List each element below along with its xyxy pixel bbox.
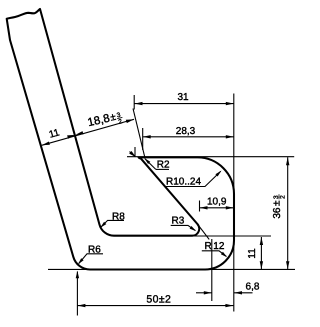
- svg-text:R10..24: R10..24: [166, 176, 201, 187]
- wire extension line right edge upper: [233, 94, 235, 196]
- leader R2: [156, 168, 169, 170]
- svg-text:11: 11: [48, 127, 61, 141]
- svg-text:31: 31: [177, 92, 189, 103]
- arrow 10,9 right: [226, 206, 234, 209]
- svg-text:10,9: 10,9: [207, 197, 227, 208]
- arrow 10,9 left: [200, 206, 208, 209]
- svg-text:R: R: [205, 241, 212, 252]
- arrow 18,8 right: [126, 119, 134, 123]
- wire extension line top edge: [127, 156, 294, 158]
- arrow 6,8 right: [234, 291, 242, 294]
- leader R12: [202, 251, 226, 256]
- dimension line 28,3: [143, 136, 234, 138]
- svg-text:36: 36: [272, 207, 283, 219]
- svg-text:6,8: 6,8: [246, 281, 260, 292]
- dimension line 50: [77, 305, 233, 307]
- leader R10..24: [165, 171, 220, 186]
- arrow 50 left: [77, 304, 85, 307]
- arrow leader R6: [78, 258, 84, 264]
- svg-text:±: ±: [272, 200, 283, 206]
- arrow at tip: [129, 151, 136, 157]
- svg-text:11: 11: [247, 248, 258, 259]
- svg-text:R3: R3: [172, 215, 185, 226]
- arrow 31 left: [135, 102, 143, 105]
- label 11 right: [247, 248, 258, 259]
- leader R6: [79, 254, 103, 264]
- arrow 36 top: [286, 157, 289, 165]
- wire diagonal extension below R3: [197, 223, 209, 239]
- arrow 31 right: [226, 102, 234, 105]
- wire extension line 50 left: [76, 272, 78, 316]
- svg-text:R6: R6: [88, 245, 101, 256]
- wire extension line 31 tip: [134, 147, 136, 157]
- leader R8: [101, 220, 124, 227]
- arrow leader R3: [190, 226, 197, 231]
- svg-text:R2: R2: [157, 160, 170, 171]
- svg-text:2: 2: [280, 195, 287, 199]
- arrow 11 right bottom: [260, 261, 263, 269]
- arrow 11 arm right: [67, 135, 75, 139]
- arrow 11 arm left: [42, 142, 50, 146]
- arrow leader R8: [100, 222, 106, 228]
- arrow 28,3 right: [226, 135, 234, 138]
- arrow leader R2: [144, 158, 150, 164]
- label 18,8 +3/-2: [87, 110, 125, 133]
- dimension line 10,9: [200, 207, 234, 209]
- wire extension line 18,8 slanted: [133, 109, 145, 158]
- dimension line 11 right: [260, 237, 262, 269]
- arrow 11 right top: [260, 237, 263, 245]
- part profile outline: [7, 9, 234, 270]
- arrow 36 bottom: [286, 261, 289, 269]
- label 11 arm: [48, 127, 61, 141]
- wire extension line 10,9: [199, 201, 201, 212]
- svg-text:R8: R8: [112, 211, 125, 222]
- svg-text:28,3: 28,3: [176, 126, 196, 137]
- wire extension line 6,8: [211, 239, 213, 301]
- dimension line 31: [135, 103, 234, 105]
- arrow leader R12: [221, 252, 227, 258]
- wire extension line 28,3: [142, 128, 144, 150]
- arrow 6,8 left: [204, 291, 212, 294]
- wire extension line bottom edge: [48, 268, 295, 270]
- wire extension line inner edge: [192, 235, 271, 237]
- arrow 28,3 left: [143, 135, 151, 138]
- dimension line 11 and 18,8: [42, 119, 134, 145]
- dimension line 36: [287, 157, 289, 269]
- arrow 50 right: [225, 304, 233, 307]
- svg-text:50±2: 50±2: [146, 293, 171, 305]
- svg-text:12: 12: [213, 241, 225, 252]
- arrow at corner: [76, 271, 79, 279]
- leader R3: [171, 225, 196, 230]
- arrow leader R10..24: [215, 171, 221, 177]
- wire extension line right edge lower: [233, 240, 235, 312]
- dimension line 6,8 left: [196, 292, 212, 294]
- leader tip arrow shaft: [130, 152, 136, 157]
- dimension line 6,8 right: [234, 292, 253, 294]
- arrow 18,8 left: [75, 131, 83, 135]
- label 36 +3/-2: [272, 194, 287, 218]
- wire extension line 31: [133, 95, 135, 110]
